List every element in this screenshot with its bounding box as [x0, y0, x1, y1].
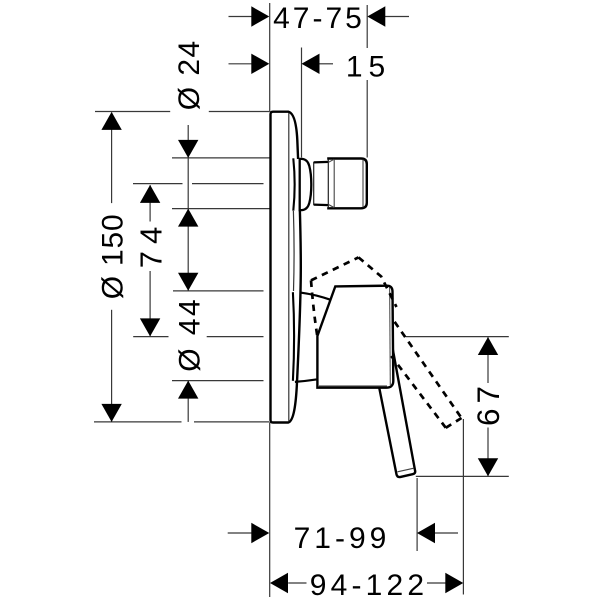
svg-text:94-122: 94-122 [310, 569, 429, 600]
svg-text:Ø 24: Ø 24 [173, 39, 206, 110]
svg-text:Ø 150: Ø 150 [96, 214, 129, 300]
svg-text:74: 74 [134, 220, 169, 268]
svg-text:47-75: 47-75 [273, 2, 365, 35]
svg-text:15: 15 [346, 51, 391, 84]
svg-text:67: 67 [470, 381, 506, 426]
svg-text:Ø 44: Ø 44 [173, 297, 206, 372]
svg-text:71-99: 71-99 [294, 522, 391, 555]
